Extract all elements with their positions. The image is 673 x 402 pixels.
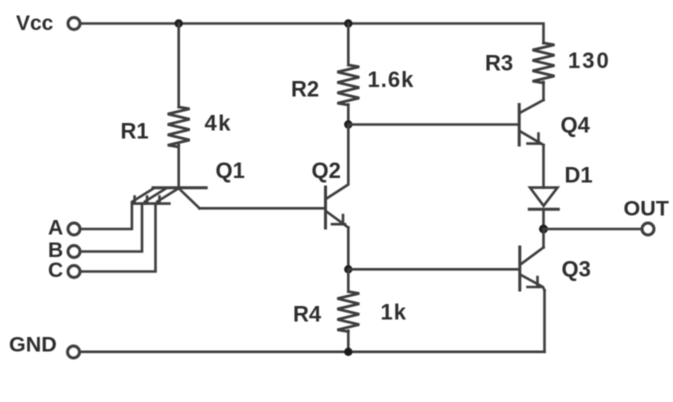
wire R3 bottom lead to Q4 collector (542, 82, 545, 100)
transistor Q3 collector (521, 247, 544, 264)
resistor R3 (533, 43, 555, 83)
svg-text:A: A (48, 217, 63, 240)
terminal A (68, 223, 80, 235)
svg-text:R1: R1 (121, 119, 149, 144)
junction node R2-Vcc (344, 19, 352, 27)
svg-text:D1: D1 (565, 163, 593, 188)
wire Q3 emitter to GND rail (543, 290, 546, 352)
wire input C to Q1 emitter 3 (81, 204, 156, 272)
wire R1 top lead (177, 24, 180, 108)
transistor Q1 emitter 2 (145, 188, 166, 201)
Q1 emitter 3 arrowhead (157, 197, 169, 204)
Q2 emitter arrowhead (332, 215, 345, 224)
terminal OUT (642, 223, 654, 235)
transistor Q4 base bar (518, 105, 521, 146)
transistor Q2 base bar (324, 187, 327, 228)
svg-text:1k: 1k (381, 300, 407, 325)
transistor Q2 emitter (327, 212, 349, 228)
terminal GND (68, 346, 80, 358)
svg-text:Q3: Q3 (562, 257, 591, 282)
wire GND rail (81, 350, 545, 353)
wire Q2 emitter to R4 junction (347, 228, 350, 270)
terminal Vcc (68, 18, 80, 30)
junction node R4-GND (344, 348, 352, 356)
svg-text:Q2: Q2 (312, 158, 341, 183)
junction node R2-Q2 collector-Q4 base (344, 120, 352, 128)
wire Q4 emitter to D1 anode (542, 145, 545, 188)
wire R4 top lead (347, 269, 350, 291)
wire output node to Q3 collector (542, 229, 545, 247)
junction node R1-Vcc (175, 19, 183, 27)
junction node Q2 emitter-R4-Q3 base (344, 265, 352, 273)
svg-text:Q1: Q1 (216, 158, 245, 183)
resistor R4 (337, 292, 359, 332)
svg-text:Q4: Q4 (561, 113, 591, 138)
svg-text:Vcc: Vcc (16, 12, 54, 35)
transistor Q1 emitter 3 (157, 188, 178, 201)
transistor Q1 emitter 1 (133, 188, 154, 201)
diode D1 (530, 188, 558, 206)
wire R2 bottom lead (347, 105, 350, 125)
wire input B to Q1 emitter 2 (81, 204, 142, 252)
resistor R1 (168, 107, 190, 147)
transistor Q4 collector (521, 100, 544, 113)
wire R1 bottom lead to Q1 base (177, 144, 180, 187)
transistor Q2 collector (327, 125, 349, 199)
svg-text:4k: 4k (205, 111, 232, 136)
transistor Q3 emitter (521, 275, 545, 290)
svg-text:R4: R4 (293, 302, 322, 327)
svg-text:OUT: OUT (624, 197, 669, 221)
svg-text:R3: R3 (485, 51, 513, 76)
wire output node to OUT terminal (544, 228, 642, 231)
terminal B (68, 246, 80, 258)
svg-text:130: 130 (568, 48, 611, 73)
transistor Q1 base bar (153, 186, 206, 189)
junction node output (539, 225, 548, 234)
transistor Q1 collector (180, 190, 200, 209)
svg-text:R2: R2 (291, 77, 319, 102)
Q3 emitter arrowhead (528, 277, 541, 287)
svg-text:C: C (48, 259, 63, 282)
wire D1 cathode to output node (542, 209, 545, 229)
wire R3 top lead (542, 42, 545, 45)
wire input A to Q1 emitter 1 (81, 203, 132, 230)
wire R2 top lead (347, 24, 350, 66)
diode D1 cathode bar (529, 208, 558, 211)
Q1 emitter 2 arrowhead (145, 197, 157, 204)
wire Vcc rail (81, 24, 544, 44)
wire R4 bottom lead (347, 331, 350, 352)
Q4 emitter arrowhead (528, 134, 541, 144)
svg-text:GND: GND (9, 333, 57, 357)
resistor R2 (337, 65, 359, 105)
wire R2 junction to Q4 base (348, 123, 519, 126)
Q1 emitter 1 arrowhead (133, 197, 145, 204)
transistor Q3 base bar (518, 247, 521, 290)
wire Q1 collector to Q2 base (200, 207, 326, 210)
transistor Q4 emitter (521, 132, 544, 146)
terminal C (68, 266, 80, 278)
svg-text:1.6k: 1.6k (368, 67, 415, 92)
wire junction to Q3 base (348, 268, 519, 271)
